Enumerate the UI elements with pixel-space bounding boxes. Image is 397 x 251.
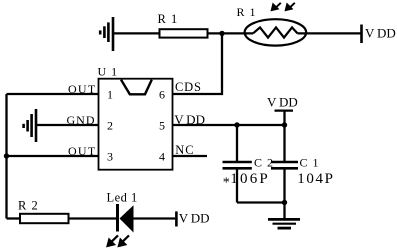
svg-text:CDS: CDS xyxy=(175,80,202,94)
svg-text:V DD: V DD xyxy=(179,211,210,226)
svg-text:6: 6 xyxy=(159,88,165,102)
wire pin1 to left rail xyxy=(7,93,99,95)
svg-text:R 1: R 1 xyxy=(158,12,179,26)
power VDD (bottom) xyxy=(175,211,178,226)
photoresistor R1 xyxy=(237,5,307,46)
wire photoresistor to VDD xyxy=(298,32,361,34)
light arrows from LED xyxy=(108,235,129,246)
svg-text:106P: 106P xyxy=(230,171,270,187)
ground (top left, sideways) xyxy=(100,17,113,51)
wire LED to VDD xyxy=(134,217,176,219)
svg-text:R 2: R 2 xyxy=(18,198,39,212)
node (C1 tap) xyxy=(282,122,287,127)
wire pin2 to ground xyxy=(36,124,99,126)
svg-text:C 1: C 1 xyxy=(300,156,320,170)
svg-text:1: 1 xyxy=(107,88,113,102)
capacitor C1 xyxy=(271,111,298,219)
wire C2 bottom to C1 bottom xyxy=(237,201,285,203)
node (junction below R1) xyxy=(219,31,224,36)
notch xyxy=(121,80,152,95)
wire pin5 VDD rail xyxy=(173,124,285,126)
light arrows onto photoresistor xyxy=(272,3,295,10)
wire R1 to node xyxy=(208,32,254,34)
LED Led1 xyxy=(107,191,138,233)
svg-text:3: 3 xyxy=(107,150,113,164)
svg-text:Led 1: Led 1 xyxy=(107,191,138,205)
node (C2 tap) xyxy=(234,122,239,127)
wire left rail vertical xyxy=(5,94,7,219)
svg-text:*: * xyxy=(223,176,230,191)
wire pin3 to left rail xyxy=(7,155,99,157)
wire ground to R1 xyxy=(113,32,160,34)
wire node down to pin 6 CDS xyxy=(173,33,223,94)
capacitor C2 xyxy=(223,125,252,203)
ground (pin 2, sideways) xyxy=(24,109,36,142)
resistor R2 xyxy=(20,214,69,223)
wire R2 to LED xyxy=(69,217,117,219)
ground (bottom right) xyxy=(268,219,300,228)
svg-text:V DD: V DD xyxy=(365,25,396,40)
svg-text:5: 5 xyxy=(159,119,165,133)
node (pin3 junction on left rail) xyxy=(4,153,9,158)
svg-text:R 1: R 1 xyxy=(237,5,257,19)
wire pin4 NC stub xyxy=(173,155,208,157)
svg-text:U 1: U 1 xyxy=(98,65,119,79)
wire left rail to R2 xyxy=(7,217,21,219)
IC U1 xyxy=(99,79,173,170)
node (bottom junction) xyxy=(282,200,287,205)
svg-text:4: 4 xyxy=(159,150,165,164)
svg-text:104P: 104P xyxy=(297,171,334,187)
resistor R1 xyxy=(160,29,208,37)
power VDD (top right) xyxy=(360,25,363,44)
svg-text:2: 2 xyxy=(107,119,113,133)
svg-text:V DD: V DD xyxy=(267,95,298,110)
